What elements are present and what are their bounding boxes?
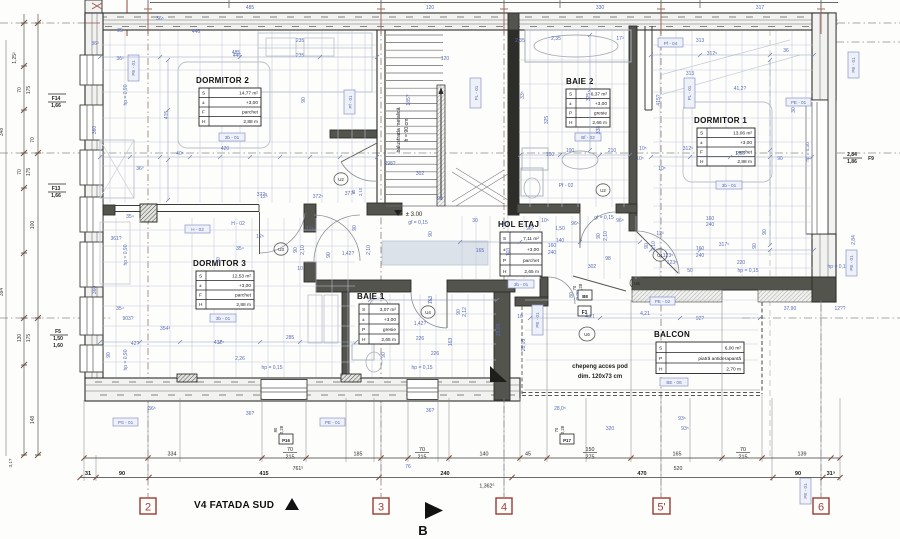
svg-text:PE - 01: PE - 01 bbox=[535, 312, 540, 328]
bathtub BAIE2 bbox=[525, 30, 631, 62]
door BAIE2 leaf arc bbox=[579, 212, 581, 248]
svg-text:hp = 0,15: hp = 0,15 bbox=[262, 365, 283, 371]
BAIE1 left wall bbox=[342, 292, 349, 378]
svg-text:520: 520 bbox=[674, 466, 683, 472]
svg-text:H: H bbox=[569, 120, 573, 126]
svg-text:320: 320 bbox=[606, 426, 615, 432]
svg-text:PE - 01: PE - 01 bbox=[803, 483, 808, 499]
svg-text:U2: U2 bbox=[338, 177, 344, 182]
svg-text:76: 76 bbox=[405, 464, 411, 470]
svg-text:446: 446 bbox=[233, 53, 242, 59]
svg-text:90: 90 bbox=[644, 243, 650, 249]
niche closet boxes D3 bbox=[308, 295, 322, 343]
divider thin wall left piece bbox=[115, 205, 140, 207]
svg-text:70: 70 bbox=[17, 169, 23, 175]
svg-text:S: S bbox=[202, 91, 205, 97]
svg-text:226: 226 bbox=[431, 351, 440, 357]
svg-text:90: 90 bbox=[301, 97, 307, 103]
svg-text:6: 6 bbox=[818, 502, 824, 514]
svg-text:140: 140 bbox=[556, 238, 565, 244]
svg-text:175: 175 bbox=[26, 86, 32, 95]
svg-text:185: 185 bbox=[354, 452, 363, 458]
svg-text:1,25²: 1,25² bbox=[12, 52, 18, 64]
F1 label bbox=[578, 306, 591, 316]
stair treads bbox=[386, 34, 443, 36]
grid axis horizontal C y318 bbox=[0, 317, 110, 319]
svg-text:2,26: 2,26 bbox=[235, 356, 245, 362]
svg-text:h = 90 cm: h = 90 cm bbox=[404, 119, 410, 142]
svg-text:175: 175 bbox=[26, 334, 32, 343]
svg-text:4: 4 bbox=[501, 502, 507, 514]
svg-text:312⁵: 312⁵ bbox=[683, 146, 693, 152]
svg-text:S: S bbox=[569, 92, 572, 98]
svg-text:H: H bbox=[503, 269, 507, 275]
grid bubble 2 bbox=[140, 498, 156, 514]
svg-text:148: 148 bbox=[30, 416, 36, 425]
grid bubble 4 bbox=[496, 498, 512, 514]
svg-text:piatră antiderapantă: piatră antiderapantă bbox=[698, 356, 741, 362]
svg-text:36?: 36? bbox=[426, 408, 435, 414]
svg-text:gf = 0,15: gf = 0,15 bbox=[594, 215, 614, 221]
svg-text:446: 446 bbox=[192, 29, 201, 35]
svg-text:±: ± bbox=[569, 101, 572, 107]
svg-text:30: 30 bbox=[472, 218, 478, 224]
BAIE2 bottom wall right segment bbox=[616, 204, 637, 213]
svg-text:H: H bbox=[659, 367, 663, 373]
svg-text:gresie: gresie bbox=[383, 327, 396, 333]
svg-text:1,50: 1,50 bbox=[53, 336, 63, 342]
door D2 leaf arc bbox=[341, 143, 377, 162]
section line red x127 bbox=[126, 0, 128, 36]
svg-text:PE - 01: PE - 01 bbox=[849, 255, 854, 271]
svg-text:90: 90 bbox=[293, 247, 299, 253]
svg-text:Pf - 02: Pf - 02 bbox=[559, 183, 574, 189]
svg-text:3b - 01: 3b - 01 bbox=[722, 183, 737, 188]
svg-text:90: 90 bbox=[762, 229, 768, 235]
svg-text:317: 317 bbox=[756, 5, 765, 11]
svg-text:PL - 01: PL - 01 bbox=[687, 85, 692, 100]
svg-text:150: 150 bbox=[586, 447, 595, 453]
svg-text:185?: 185? bbox=[406, 94, 412, 105]
svg-text:334: 334 bbox=[168, 452, 177, 458]
svg-text:36?: 36? bbox=[246, 411, 255, 417]
svg-text:6,00 m²: 6,00 m² bbox=[725, 346, 742, 352]
svg-text:31⁵: 31⁵ bbox=[827, 471, 836, 477]
svg-text:3: 3 bbox=[378, 502, 384, 514]
svg-text:U4: U4 bbox=[425, 310, 431, 315]
svg-text:10⁵: 10⁵ bbox=[639, 146, 647, 152]
svg-text:70: 70 bbox=[740, 447, 746, 453]
svg-text:28,05: 28,05 bbox=[496, 324, 502, 337]
left wall windows bbox=[80, 55, 103, 85]
svg-text:10⁵: 10⁵ bbox=[541, 218, 549, 224]
svg-text:28,05: 28,05 bbox=[521, 339, 527, 352]
svg-text:parchet: parchet bbox=[242, 110, 259, 116]
door U2 circle D2 bbox=[334, 173, 348, 185]
furniture wardrobe D2 bbox=[100, 140, 134, 198]
grid axis horizontal A y23 bbox=[0, 22, 900, 24]
svg-text:±: ± bbox=[202, 100, 205, 106]
svg-text:3b - 01: 3b - 01 bbox=[216, 316, 231, 321]
svg-text:12,53 m²: 12,53 m² bbox=[232, 274, 251, 280]
svg-text:2,28: 2,28 bbox=[560, 425, 565, 434]
svg-text:70: 70 bbox=[287, 447, 293, 453]
svg-text:348: 348 bbox=[0, 128, 5, 137]
svg-text:175: 175 bbox=[26, 168, 32, 177]
svg-text:123⁵: 123⁵ bbox=[663, 253, 673, 259]
svg-text:361?: 361? bbox=[110, 236, 121, 242]
svg-text:312⁵: 312⁵ bbox=[707, 51, 717, 57]
svg-text:2,65 m: 2,65 m bbox=[524, 269, 539, 275]
svg-text:3b - 01: 3b - 01 bbox=[514, 282, 529, 287]
svg-text:215: 215 bbox=[739, 455, 748, 461]
svg-text:96⁵: 96⁵ bbox=[571, 221, 579, 227]
svg-text:3,1?: 3,1? bbox=[8, 458, 13, 467]
svg-text:903?: 903? bbox=[122, 316, 133, 322]
grid bubble 5' bbox=[653, 498, 670, 514]
D1 window sill band bbox=[632, 290, 722, 302]
svg-text:90: 90 bbox=[752, 243, 758, 249]
svg-text:90: 90 bbox=[352, 225, 358, 231]
interior wall divider D2/D3 thin double-line wall bbox=[157, 204, 259, 206]
svg-text:gresie: gresie bbox=[594, 111, 607, 117]
svg-text:93⁵: 93⁵ bbox=[678, 416, 686, 422]
svg-text:+3,00: +3,00 bbox=[527, 247, 539, 253]
PL-01 label stair bbox=[470, 78, 481, 108]
svg-text:2,70 m: 2,70 m bbox=[726, 367, 741, 373]
window opening bottom 1 bbox=[261, 380, 307, 400]
balcony door jamb stub bbox=[540, 277, 548, 297]
svg-text:37,90: 37,90 bbox=[784, 306, 797, 312]
svg-text:235: 235 bbox=[296, 53, 305, 59]
furniture D3 wardrobe bbox=[100, 222, 130, 284]
svg-text:215: 215 bbox=[418, 455, 427, 461]
svg-text:360: 360 bbox=[92, 126, 98, 135]
D2 interior closet wall bbox=[330, 130, 377, 138]
svg-text:S: S bbox=[503, 236, 506, 242]
grid axis vertical aux x770 bbox=[769, 30, 771, 460]
svg-text:99: 99 bbox=[437, 196, 443, 202]
svg-text:±: ± bbox=[199, 283, 202, 289]
roof overhang line top bbox=[150, 2, 838, 4]
svg-text:41,2?: 41,2? bbox=[734, 86, 747, 92]
svg-text:F: F bbox=[202, 110, 205, 116]
svg-text:96⁵: 96⁵ bbox=[616, 218, 624, 224]
D1 bottom wall bbox=[632, 277, 812, 290]
svg-text:140: 140 bbox=[480, 452, 489, 458]
svg-text:2,84: 2,84 bbox=[847, 152, 857, 158]
door BAIE1 leaf arc bbox=[446, 292, 448, 328]
corridor door arcs bbox=[314, 215, 360, 261]
svg-text:93⁵: 93⁵ bbox=[681, 426, 689, 432]
BAIE2 right wall bbox=[629, 26, 637, 231]
svg-text:Pf - 01: Pf - 01 bbox=[348, 95, 353, 108]
grid intersection ticks on walls bbox=[144, 8, 152, 10]
svg-text:31: 31 bbox=[85, 471, 91, 477]
svg-text:415?: 415? bbox=[656, 94, 662, 105]
svg-text:2,35: 2,35 bbox=[551, 36, 561, 42]
svg-text:40⁵: 40⁵ bbox=[176, 151, 184, 157]
svg-text:Bf - 02: Bf - 02 bbox=[581, 135, 595, 140]
svg-text:415: 415 bbox=[164, 111, 170, 120]
door U1 circle D1 bbox=[653, 249, 667, 261]
svg-text:30: 30 bbox=[791, 107, 797, 113]
svg-text:BAIE 2: BAIE 2 bbox=[566, 77, 594, 86]
svg-text:360: 360 bbox=[92, 286, 98, 295]
SE corner wall block bbox=[812, 277, 836, 302]
svg-text:1,66: 1,66 bbox=[51, 103, 61, 109]
D1 slope diagonals bbox=[660, 40, 790, 75]
exterior wall left bbox=[85, 13, 103, 380]
svg-text:90: 90 bbox=[119, 471, 125, 477]
bottom wall pilasters bbox=[177, 374, 197, 382]
svg-text:6,37 m²: 6,37 m² bbox=[591, 92, 608, 98]
door D3 leaf and arc bbox=[259, 212, 261, 254]
svg-text:10: 10 bbox=[517, 314, 523, 320]
svg-text:U3: U3 bbox=[278, 247, 284, 252]
grid bubble 6 bbox=[813, 498, 829, 514]
svg-text:120: 120 bbox=[426, 5, 435, 11]
svg-text:2,65 m: 2,65 m bbox=[381, 337, 396, 343]
svg-text:17³: 17³ bbox=[616, 36, 624, 42]
svg-text:F: F bbox=[199, 293, 202, 299]
door U5 circle bbox=[630, 277, 644, 289]
corridor landing shaded rect bbox=[382, 241, 488, 265]
svg-text:377⁵: 377⁵ bbox=[345, 191, 355, 197]
svg-text:325: 325 bbox=[586, 93, 592, 102]
svg-text:±: ± bbox=[362, 317, 365, 323]
svg-text:PE - 01: PE - 01 bbox=[131, 60, 136, 76]
exterior wall top bbox=[85, 13, 836, 30]
interior wall T block corridor bbox=[304, 204, 316, 232]
svg-text:B8: B8 bbox=[582, 294, 588, 299]
svg-text:35⁴: 35⁴ bbox=[126, 214, 134, 220]
toilet BAIE1 bbox=[366, 352, 382, 372]
svg-text:F14: F14 bbox=[52, 96, 61, 102]
svg-text:14,77 m²: 14,77 m² bbox=[239, 91, 258, 97]
grid axis vertical 5' bbox=[660, 0, 662, 497]
svg-text:12??: 12?? bbox=[834, 306, 845, 312]
exterior wall right upper bbox=[812, 13, 836, 100]
svg-text:240: 240 bbox=[440, 471, 449, 477]
svg-text:226: 226 bbox=[416, 336, 425, 342]
svg-text:70: 70 bbox=[572, 285, 577, 290]
svg-text:100: 100 bbox=[30, 221, 36, 230]
svg-text:2,10: 2,10 bbox=[603, 231, 609, 241]
svg-text:10: 10 bbox=[297, 266, 303, 272]
svg-text:10⁵: 10⁵ bbox=[658, 166, 666, 172]
svg-text:2,28: 2,28 bbox=[279, 425, 284, 434]
sink BAIE1 bbox=[352, 344, 374, 360]
svg-text:BAIE 1: BAIE 1 bbox=[357, 292, 385, 301]
svg-text:45: 45 bbox=[525, 452, 531, 458]
svg-text:90: 90 bbox=[381, 352, 387, 358]
svg-text:U6: U6 bbox=[584, 332, 590, 337]
svg-text:235: 235 bbox=[296, 38, 305, 44]
svg-text:90: 90 bbox=[326, 252, 332, 258]
svg-text:dim. 120x73 cm: dim. 120x73 cm bbox=[578, 374, 622, 380]
door U4 circle bbox=[421, 306, 435, 318]
toilet BAIE2 bbox=[521, 168, 543, 196]
svg-text:80: 80 bbox=[273, 427, 278, 432]
svg-text:103: 103 bbox=[506, 248, 512, 257]
grid axis vertical 2 bbox=[147, 0, 149, 497]
svg-text:1,66: 1,66 bbox=[51, 193, 61, 199]
svg-text:H - 02: H - 02 bbox=[231, 221, 245, 227]
svg-text:5': 5' bbox=[657, 502, 665, 514]
sink BAIE2 bbox=[562, 151, 598, 169]
svg-text:317⁵: 317⁵ bbox=[719, 242, 729, 248]
svg-text:PS - 01: PS - 01 bbox=[118, 420, 134, 425]
svg-text:4,21: 4,21 bbox=[640, 311, 650, 317]
svg-text:S: S bbox=[700, 131, 703, 137]
left dimension chain lines bbox=[23, 14, 25, 456]
svg-text:210: 210 bbox=[608, 148, 617, 154]
svg-text:hp = 0,90: hp = 0,90 bbox=[123, 244, 129, 265]
svg-text:BE - 06: BE - 06 bbox=[666, 380, 682, 385]
svg-text:3,07 m²: 3,07 m² bbox=[380, 307, 397, 313]
svg-text:240: 240 bbox=[706, 222, 715, 228]
svg-text:PE - 01: PE - 01 bbox=[325, 420, 341, 425]
svg-text:470: 470 bbox=[637, 471, 646, 477]
svg-text:H: H bbox=[202, 119, 206, 125]
svg-text:S: S bbox=[659, 346, 662, 352]
dimension row A bbox=[84, 457, 840, 459]
svg-text:70: 70 bbox=[30, 137, 36, 143]
svg-text:394: 394 bbox=[0, 288, 5, 297]
svg-text:160: 160 bbox=[696, 246, 705, 252]
rug D1 rounded bbox=[683, 102, 772, 182]
level marker stair ±3.00 bbox=[394, 210, 402, 216]
svg-text:1,60: 1,60 bbox=[53, 343, 63, 349]
svg-text:325: 325 bbox=[544, 116, 550, 125]
BAIE1 right wall vertical bbox=[494, 292, 510, 400]
svg-text:275: 275 bbox=[586, 455, 595, 461]
svg-text:12³: 12³ bbox=[656, 231, 664, 237]
dimension row B bbox=[80, 477, 840, 479]
interior wall divider pilaster grid2 bbox=[140, 204, 157, 222]
svg-text:chepeng acces pod: chepeng acces pod bbox=[572, 364, 628, 370]
svg-text:P: P bbox=[659, 356, 662, 362]
extension line clutter bbox=[101, 31, 813, 377]
rug D2 rounded bbox=[178, 62, 270, 148]
svg-text:U2: U2 bbox=[600, 188, 606, 193]
svg-text:10⁵: 10⁵ bbox=[636, 156, 644, 162]
svg-text:1,362⁵: 1,362⁵ bbox=[479, 484, 494, 490]
stair east wall top junction bbox=[508, 13, 519, 30]
svg-text:36⁵: 36⁵ bbox=[148, 406, 156, 412]
svg-text:165: 165 bbox=[673, 452, 682, 458]
svg-text:761⁵: 761⁵ bbox=[293, 466, 304, 472]
svg-text:PL - 01: PL - 01 bbox=[474, 85, 479, 100]
svg-text:165: 165 bbox=[476, 248, 485, 254]
svg-text:96⁵: 96⁵ bbox=[526, 226, 534, 232]
svg-text:35⁴: 35⁴ bbox=[116, 306, 124, 312]
PA-01 box D2 right bbox=[344, 90, 355, 114]
stair west wall bbox=[376, 30, 378, 203]
svg-text:P: P bbox=[569, 111, 572, 117]
svg-text:70: 70 bbox=[554, 427, 559, 432]
svg-text:354³: 354³ bbox=[160, 326, 170, 332]
svg-text:12⁵: 12⁵ bbox=[306, 226, 314, 232]
blue boxed labels bbox=[128, 55, 139, 81]
svg-text:313: 313 bbox=[686, 71, 695, 77]
door balcony leaf bbox=[573, 276, 626, 291]
svg-text:2,88 m: 2,88 m bbox=[243, 119, 258, 125]
svg-text:123⁵: 123⁵ bbox=[667, 260, 677, 266]
svg-text:25: 25 bbox=[117, 28, 123, 34]
svg-text:35⁴: 35⁴ bbox=[236, 246, 244, 252]
svg-text:F: F bbox=[700, 150, 703, 156]
stair east wall bbox=[508, 30, 519, 215]
svg-text:12⁵: 12⁵ bbox=[260, 194, 268, 200]
svg-text:1,50: 1,50 bbox=[735, 151, 745, 157]
door U6 circle balcony bbox=[579, 327, 595, 341]
svg-text:3b - 01: 3b - 01 bbox=[225, 135, 240, 140]
svg-text:hp = 0,15: hp = 0,15 bbox=[828, 264, 849, 270]
dimension clutter blue texts bbox=[91, 5, 857, 470]
furniture bed D2 bbox=[258, 33, 372, 92]
svg-text:1,42?: 1,42? bbox=[414, 321, 427, 327]
grid axis horizontal y42 right stub bbox=[836, 41, 900, 43]
shower box BAIE2 bbox=[522, 148, 548, 170]
red cross mark top left bbox=[92, 3, 102, 9]
svg-text:DORMITOR 2: DORMITOR 2 bbox=[196, 76, 249, 85]
svg-text:+3,00: +3,00 bbox=[740, 140, 752, 146]
svg-text:302: 302 bbox=[588, 264, 597, 270]
svg-text:parchet: parchet bbox=[235, 293, 252, 299]
svg-text:36⁵: 36⁵ bbox=[156, 16, 164, 22]
svg-text:+3,00: +3,00 bbox=[239, 283, 251, 289]
svg-text:parchet: parchet bbox=[523, 258, 540, 264]
svg-text:±: ± bbox=[700, 140, 703, 146]
svg-text:30: 30 bbox=[502, 222, 508, 228]
svg-text:90: 90 bbox=[216, 257, 222, 263]
svg-text:F13: F13 bbox=[52, 186, 61, 192]
svg-text:1,42?: 1,42? bbox=[342, 251, 355, 257]
svg-text:120: 120 bbox=[441, 56, 450, 62]
svg-text:1,86: 1,86 bbox=[847, 159, 857, 165]
grid bubble 3 bbox=[373, 498, 389, 514]
svg-text:B: B bbox=[418, 523, 427, 538]
door U3 circle bbox=[274, 243, 288, 255]
window right F9 bbox=[806, 100, 828, 234]
svg-text:P: P bbox=[503, 258, 506, 264]
svg-text:P17: P17 bbox=[563, 438, 571, 443]
svg-text:302: 302 bbox=[416, 171, 425, 177]
svg-text:Pf - 04: Pf - 04 bbox=[664, 41, 678, 46]
exterior wall right lower bbox=[812, 234, 836, 302]
svg-text:balustrada metalică: balustrada metalică bbox=[396, 107, 402, 152]
svg-text:338: 338 bbox=[596, 126, 602, 135]
exterior wall right outer band bbox=[828, 13, 836, 302]
svg-text:313: 313 bbox=[696, 38, 705, 44]
svg-text:139: 139 bbox=[798, 452, 807, 458]
svg-text:gf = 0,15: gf = 0,15 bbox=[408, 220, 428, 226]
svg-text:+3,00: +3,00 bbox=[384, 317, 396, 323]
svg-text:P: P bbox=[362, 327, 365, 333]
svg-text:1,50: 1,50 bbox=[555, 226, 565, 232]
bottom extension lines bbox=[83, 400, 85, 481]
BAIE2 bottom wall left segment bbox=[517, 204, 580, 213]
svg-text:PE - 01: PE - 01 bbox=[791, 100, 807, 105]
grid axis vertical 6 bbox=[820, 0, 822, 497]
svg-text:50: 50 bbox=[687, 268, 693, 274]
svg-text:H: H bbox=[362, 337, 366, 343]
svg-text:36³: 36³ bbox=[91, 41, 99, 47]
HOL balcony wall stub bbox=[515, 297, 548, 306]
svg-text:2,12: 2,12 bbox=[462, 307, 468, 317]
